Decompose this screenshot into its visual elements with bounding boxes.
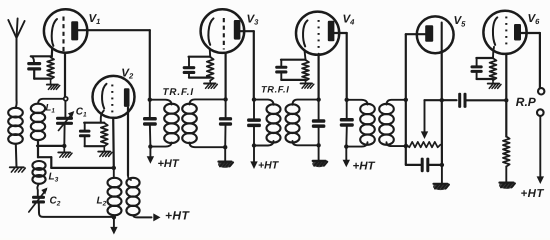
label TR.F.1 (1) — [163, 87, 195, 98]
wire +HT right — [537, 116, 544, 184]
label TR.F.1 (2) — [261, 84, 289, 94]
wire +HT stage2 — [250, 146, 257, 170]
inductor L2 secondary — [126, 178, 139, 216]
terminal phone upper — [538, 88, 544, 94]
wire RC bottom (V1) — [34, 77, 50, 79]
wire L3 to C2 — [37, 184, 39, 196]
ground (L1/C1) — [58, 152, 72, 157]
wire to ground (V6 grid) — [505, 167, 507, 183]
cathode capacitor (V2) — [79, 123, 104, 147]
node primary bottom — [148, 144, 152, 148]
node V1 plate/primary — [148, 98, 152, 102]
grid capacitor (V4) — [275, 60, 305, 80]
label +HT (L2) — [165, 209, 190, 223]
wire V2 grid down — [112, 118, 116, 170]
wire V5 grid down — [441, 53, 443, 165]
wire RC bottom (V4) — [281, 79, 305, 81]
grid leak resistor (V6) — [503, 137, 510, 167]
grid capacitor C (V1) — [27, 56, 52, 78]
wire V2 filament lead — [101, 111, 104, 123]
transformer TR.F.1 (2) secondary — [286, 100, 319, 146]
grid leak resistor (V1) — [47, 57, 54, 79]
wire wiper branch — [421, 100, 457, 139]
node junction ring — [64, 97, 68, 101]
wire RC bottom (V3) — [189, 76, 210, 78]
tube V2 — [93, 76, 135, 118]
grid capacitor (V3) — [183, 57, 211, 78]
wire to ground (V6 RC) — [492, 80, 494, 83]
ground (sec 2) — [312, 160, 327, 167]
transformer TR.F.1 primary — [150, 100, 179, 147]
node bypass right — [440, 163, 444, 167]
label V4 — [343, 14, 356, 27]
label V2 — [121, 68, 134, 81]
wire V1 plate — [78, 30, 150, 98]
label V1 — [89, 13, 101, 26]
wire to ground (V3) — [209, 81, 211, 84]
svg-text:R.P: R.P — [516, 95, 537, 109]
label +HT (1) — [158, 158, 180, 170]
wire V6 plate — [521, 33, 540, 88]
wire RC bottom (V2) — [85, 145, 105, 147]
wire node to ground — [63, 146, 65, 152]
ground (V3) — [204, 84, 217, 89]
ground (aerial) — [10, 167, 25, 172]
svg-text:+HT: +HT — [521, 188, 545, 200]
tuning capacitor (primary 1) — [143, 100, 157, 147]
wire V2 anode down — [127, 108, 129, 176]
ground (V4) — [301, 83, 314, 88]
wire V6 grid down — [504, 54, 508, 137]
svg-text:TR.F.I: TR.F.I — [163, 87, 195, 98]
label C1 — [76, 107, 87, 119]
wire to ground (pot) — [441, 165, 443, 183]
tube V5 — [417, 16, 454, 53]
wire to ground (V1) — [50, 79, 52, 84]
wire to ground (sec 1) — [224, 147, 226, 161]
tuning capacitor (secondary 2) — [312, 100, 326, 146]
label L1 — [46, 103, 56, 115]
wire to ground (V2) — [103, 146, 105, 151]
transformer TR.F.1 (2) primary — [254, 100, 281, 146]
label C2 — [50, 196, 61, 208]
label +HT (right) — [521, 188, 545, 200]
wire to ground (V4) — [305, 81, 307, 83]
grid resistor (V3) — [207, 57, 214, 81]
label +HT (3) — [353, 161, 376, 173]
ground (V6 RC) — [488, 84, 501, 89]
bypass capacitor (pot) — [406, 158, 442, 173]
wire C1 stem top — [64, 101, 66, 117]
ground (V2) — [98, 152, 112, 157]
terminal phone lower — [537, 109, 544, 116]
ground (sec 1) — [218, 161, 233, 168]
tube V4 — [296, 12, 339, 55]
variable capacitor C1 — [56, 111, 74, 131]
wire secondary2 to V4 grid — [318, 54, 320, 100]
svg-text:+HT: +HT — [158, 158, 180, 170]
label V5 — [454, 15, 467, 28]
tuning capacitor (primary 2) — [247, 100, 261, 146]
grid capacitor (V6) — [471, 58, 494, 79]
wire +HT stage3 — [343, 147, 350, 168]
wire L2 to +HT — [133, 213, 161, 221]
wire filament arrow down — [110, 217, 117, 234]
svg-text:+HT: +HT — [258, 160, 280, 172]
node plate/secondary3 top — [404, 98, 408, 102]
inductor L1 — [31, 104, 45, 140]
node secondary bottom — [223, 145, 227, 149]
svg-text:TR.F.I: TR.F.I — [261, 84, 289, 94]
wire L1 top — [38, 99, 64, 104]
svg-text:+HT: +HT — [165, 209, 190, 223]
tuning capacitor (primary 3) — [340, 100, 354, 147]
wire to ground (sec 2) — [318, 145, 320, 160]
wire RC bottom (V6) — [477, 78, 493, 80]
coupling capacitor — [458, 93, 466, 108]
wire bus to L2 — [38, 157, 114, 168]
wire V4 plate — [334, 33, 346, 99]
variable capacitor C2 — [29, 188, 48, 213]
label V3 — [247, 13, 260, 26]
wire secondary to V3 grid — [225, 53, 227, 100]
wire +HT stage1 — [147, 147, 154, 164]
node plate/secondary3 bottom — [404, 144, 408, 148]
wire V4 filament lead — [305, 50, 306, 60]
inductor L3 — [32, 161, 45, 184]
label +HT (2) — [258, 160, 280, 172]
svg-text:+HT: +HT — [353, 161, 376, 173]
wire L1 bottom / node — [37, 140, 67, 157]
grid resistor (V6 RC) — [490, 58, 497, 80]
wire V5 plate — [406, 34, 425, 164]
node secondary 2 top — [316, 97, 320, 101]
tube V6 — [483, 11, 526, 54]
node secondary 2 bottom — [316, 143, 320, 147]
antenna coupling coil — [8, 108, 23, 144]
grid resistor (V4) — [302, 60, 309, 81]
wire V1 filament lead — [51, 48, 54, 56]
wire V1 grid to node — [64, 53, 66, 97]
wire V3 plate — [240, 31, 253, 98]
tuning capacitor (secondary 1) — [219, 99, 232, 147]
transformer 3 primary — [346, 100, 375, 147]
inductor L2 primary — [108, 168, 132, 215]
cathode resistor (V2) — [101, 123, 108, 146]
label V6 — [528, 13, 541, 26]
transformer 3 secondary — [379, 100, 406, 146]
node primary 2 bottom — [252, 143, 256, 147]
tube V1 — [44, 9, 87, 52]
tube V3 — [201, 9, 245, 53]
ground (V6 grid) — [499, 182, 515, 189]
wire C2 bottom bus — [39, 204, 114, 217]
ground (pot) — [433, 183, 449, 190]
node primary 3 bottom — [344, 144, 348, 148]
node V3 plate/primary 2 — [252, 97, 256, 101]
label L2 — [97, 196, 107, 208]
node secondary top — [223, 97, 227, 101]
label L3 — [49, 172, 59, 184]
wire L2 bottom node — [112, 215, 116, 219]
wire coupling to V6 grid — [465, 99, 506, 101]
antenna — [8, 19, 24, 109]
ground (V1) — [47, 85, 60, 90]
wire V6 filament lead — [493, 47, 494, 58]
wire V3 filament lead — [209, 50, 211, 57]
wire antenna coil to ground — [15, 144, 18, 167]
wire C1 stem bottom — [63, 125, 65, 146]
node V5 grid top — [440, 98, 444, 102]
potentiometer — [407, 142, 441, 147]
label R.P — [516, 95, 537, 109]
node V4 plate/primary 3 — [345, 98, 349, 102]
transformer TR.F.1 secondary — [182, 99, 225, 147]
